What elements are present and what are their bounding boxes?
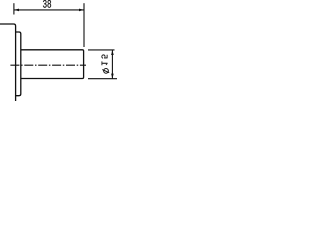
dimension text 38: digit 3 xyxy=(43,0,47,8)
dimension text o15: digit 5 (rotated) xyxy=(102,55,108,59)
extension line top (o15) xyxy=(88,49,115,51)
arrowhead up xyxy=(111,50,114,55)
dimension text 38: digit 8 xyxy=(47,0,51,8)
arrowhead left xyxy=(14,9,19,12)
centerline xyxy=(10,64,86,66)
extension line right xyxy=(83,3,85,47)
flange xyxy=(16,32,21,96)
dimension text o15: diameter symbol slash xyxy=(102,70,109,73)
extension line left xyxy=(13,3,15,14)
dimension line 38 xyxy=(14,9,84,11)
shaft ø15 body xyxy=(21,50,84,79)
background xyxy=(0,0,117,101)
extension line bottom (o15) xyxy=(88,78,117,80)
arrowhead down xyxy=(111,74,114,79)
arrowhead right xyxy=(79,9,84,12)
mounting plate edge xyxy=(0,24,16,101)
dimension text o15: digit 1 (rotated) xyxy=(102,61,108,65)
dimension line o15 xyxy=(111,50,113,79)
dimension text o15: diameter symbol circle xyxy=(104,69,109,74)
